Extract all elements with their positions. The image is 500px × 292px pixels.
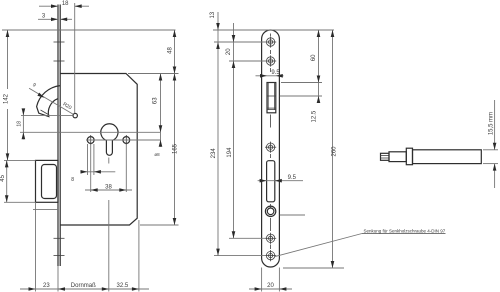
svg-text:12.5: 12.5 [311,110,317,122]
svg-text:18: 18 [62,1,69,7]
svg-text:18: 18 [16,121,22,127]
svg-text:260: 260 [331,146,337,157]
svg-text:63: 63 [153,97,159,104]
svg-text:20: 20 [226,48,232,55]
svg-text:13: 13 [210,11,216,18]
svg-text:8: 8 [71,177,74,183]
svg-text:142: 142 [4,93,10,104]
svg-text:48: 48 [167,47,173,54]
svg-text:165: 165 [172,143,178,154]
svg-text:ø8: ø8 [154,152,160,157]
svg-text:9.5: 9.5 [288,175,297,181]
svg-text:15,5 mm: 15,5 mm [488,112,494,135]
svg-text:45: 45 [0,174,6,181]
svg-text:Dornmaß: Dornmaß [71,283,96,289]
svg-text:60: 60 [311,54,317,61]
svg-text:32.5: 32.5 [117,283,129,289]
svg-text:23: 23 [43,283,50,289]
svg-text:9.5: 9.5 [271,70,280,76]
svg-text:Senkung für Senkholzschraube 4: Senkung für Senkholzschraube 4-DIN 97 [364,228,446,233]
svg-text:20: 20 [267,283,274,289]
svg-text:38: 38 [105,184,112,190]
svg-text:194: 194 [227,147,233,158]
svg-text:234: 234 [211,148,217,159]
